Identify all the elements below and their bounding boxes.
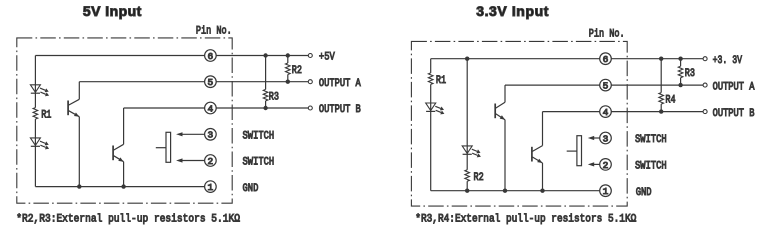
svg-text:SWITCH: SWITCH bbox=[635, 161, 667, 173]
svg-text:GND: GND bbox=[243, 183, 259, 195]
svg-text:R3: R3 bbox=[269, 91, 279, 103]
svg-text:R4: R4 bbox=[665, 95, 676, 107]
svg-text:SWITCH: SWITCH bbox=[243, 157, 275, 169]
svg-text:5: 5 bbox=[208, 77, 214, 88]
svg-text:4: 4 bbox=[208, 103, 214, 114]
svg-text:3.3V Input: 3.3V Input bbox=[476, 3, 549, 19]
svg-text:3: 3 bbox=[603, 133, 609, 144]
svg-text:R3: R3 bbox=[685, 68, 695, 80]
svg-text:4: 4 bbox=[603, 107, 609, 118]
svg-text:R1: R1 bbox=[41, 110, 52, 122]
svg-text:SWITCH: SWITCH bbox=[243, 131, 275, 143]
svg-text:R2: R2 bbox=[474, 172, 484, 184]
svg-text:2: 2 bbox=[208, 156, 214, 167]
svg-text:*R2,R3:External pull-up resist: *R2,R3:External pull-up resistors 5.1KΩ bbox=[16, 213, 240, 225]
svg-text:R2: R2 bbox=[292, 65, 302, 77]
svg-text:OUTPUT B: OUTPUT B bbox=[713, 108, 755, 120]
svg-text:6: 6 bbox=[208, 51, 214, 62]
svg-text:OUTPUT B: OUTPUT B bbox=[319, 104, 361, 116]
svg-text:Pin No.: Pin No. bbox=[589, 29, 625, 41]
svg-text:+5V: +5V bbox=[319, 52, 335, 64]
svg-text:5V Input: 5V Input bbox=[83, 3, 142, 19]
svg-text:2: 2 bbox=[603, 160, 609, 171]
svg-text:3: 3 bbox=[208, 130, 214, 141]
svg-text:R1: R1 bbox=[436, 75, 447, 87]
svg-text:+3. 3V: +3. 3V bbox=[713, 55, 743, 67]
svg-text:1: 1 bbox=[208, 182, 214, 193]
svg-text:Pin No.: Pin No. bbox=[196, 25, 232, 37]
svg-text:GND: GND bbox=[636, 187, 652, 199]
svg-text:*R3,R4:External pull-up resist: *R3,R4:External pull-up resistors 5.1KΩ bbox=[415, 213, 636, 225]
svg-text:OUTPUT A: OUTPUT A bbox=[319, 78, 361, 90]
svg-text:OUTPUT A: OUTPUT A bbox=[713, 81, 755, 93]
svg-text:6: 6 bbox=[603, 54, 609, 65]
svg-text:5: 5 bbox=[603, 81, 609, 92]
svg-text:1: 1 bbox=[603, 186, 609, 197]
svg-text:SWITCH: SWITCH bbox=[635, 134, 667, 146]
